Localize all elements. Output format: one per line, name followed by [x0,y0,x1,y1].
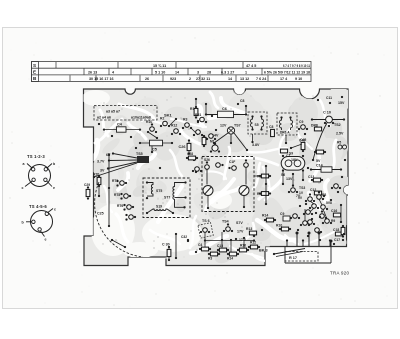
svg-text:R14: R14 [262,214,268,218]
svg-text:ST5: ST5 [156,189,162,193]
capacitor C16 [331,209,341,217]
transistor TS16 [206,134,216,140]
bus wire bottom center [204,239,255,241]
right cluster interconnect wires [305,199,327,221]
transistor TS3b [288,184,298,193]
potentiometer R17 dashed box [285,252,318,262]
wire DR6 box down [285,135,287,144]
choke DR7 [314,150,326,154]
wire down right [245,167,247,184]
wire down to edge B [308,232,311,247]
resistor R12b [248,241,260,249]
wire stub lower-left [112,240,126,248]
transistor TS4 [222,220,233,233]
scale left index boxes [32,62,39,82]
svg-text:C8: C8 [240,99,244,103]
transistor C1F [216,163,221,168]
bottom row capacitor C15 [217,244,229,252]
svg-text:DR6.A: DR6.A [280,131,290,135]
capacitor C5 [139,140,173,151]
svg-text:28: 28 [207,70,211,74]
transistor S27 [244,163,249,168]
white copper traces texture [90,92,336,261]
svg-text:R12: R12 [171,124,177,128]
dial scale assembly [32,62,312,82]
svg-text:RT9: RT9 [112,179,118,183]
board pads above R17 [286,239,331,246]
svg-text:C25: C25 [97,212,104,216]
wire dumbbell to TS3 [292,173,294,187]
capacitor C28 [186,152,198,160]
svg-text:TS2: TS2 [334,123,341,127]
svg-text:7V: 7V [296,194,301,198]
coil can S8 dumbbell [281,152,305,172]
svg-text:C 10: C 10 [323,111,331,115]
wire pair down-left [175,233,177,259]
capacitor C14 [310,164,342,173]
transistor TS11 [160,117,170,128]
resistor R14 [262,214,276,222]
wire dumbbell risers [282,171,304,186]
gray scan mottling [89,83,367,265]
junction dots top right [317,96,343,104]
scale numbers row 2 [88,70,310,74]
scale row line 2 [32,74,312,76]
svg-text:3V: 3V [100,169,105,173]
svg-text:R1: R1 [190,107,194,111]
capacitor C18 [333,228,343,236]
choke DR8 [311,124,322,131]
transistor TS6 with dashed outline [198,219,213,238]
bottom row resistor R3b [208,252,220,260]
resistor R21 [202,135,206,147]
svg-text:6.3 1 27: 6.3 1 27 [221,70,234,74]
page scan noise [9,31,391,307]
transistor TS15 [195,113,213,123]
tuning drum arc [95,182,143,257]
capacitor C6 [205,107,247,118]
bottom row capacitor C6b [198,243,211,251]
junction dots right column [299,159,346,207]
resistor R10b [276,224,291,231]
svg-text:17 V: 17 V [239,238,247,242]
junction dots row under dashed box [98,123,132,138]
svg-text:ST7: ST7 [164,196,170,200]
svg-text:3.7V: 3.7V [97,160,105,164]
svg-text:RT6: RT6 [117,204,123,208]
svg-text:TS4: TS4 [222,220,229,224]
transistor TS12 [171,124,181,136]
svg-text:C16: C16 [331,209,337,213]
svg-text:C17: C17 [334,238,340,242]
capacitor C12 [310,188,322,195]
transistor C3F [232,166,237,171]
transistor near C45 [298,120,308,130]
svg-text:7 6 24: 7 6 24 [256,77,267,81]
svg-text:26 13: 26 13 [88,70,97,74]
capacitor C10 with leads [311,111,345,121]
wire trimmer C3 down [243,196,245,209]
coil S19 [147,209,173,213]
transistor TS8 driver [210,140,220,153]
capacitor C4 [103,123,141,133]
svg-text:C26: C26 [179,145,186,149]
arc junction dot [111,239,113,241]
svg-text:13 12: 13 12 [240,77,249,81]
capacitor C30 [162,243,171,262]
svg-text:15V: 15V [338,101,345,105]
transistor TS2 [312,116,341,161]
svg-text:R9: R9 [331,219,335,223]
capacitor C29 on left edge [84,183,90,200]
svg-text:5V: 5V [316,159,321,163]
svg-text:17V: 17V [237,230,244,234]
wire TS6 riser [204,233,206,248]
transistor cluster A [305,193,315,202]
svg-text:R 17: R 17 [289,256,297,260]
electrolytic R5 [337,141,347,150]
junction dots right column extra [297,229,345,245]
transistor RT9 [112,179,127,187]
svg-text:a3 a5 a7: a3 a5 a7 [106,110,120,114]
svg-text:S7V: S7V [236,221,243,225]
svg-text:C7: C7 [286,154,290,158]
svg-text:R3: R3 [208,257,212,261]
wire top cluster d [202,129,217,139]
svg-text:C29: C29 [84,183,90,187]
PCB board outline [84,89,349,266]
svg-text:C4: C4 [198,243,202,247]
svg-text:2: 2 [189,77,191,81]
svg-text:c: c [54,208,56,212]
svg-text:C9: C9 [280,212,284,216]
wire top cluster c [191,120,199,135]
wire left column riser [98,186,100,197]
capacitor C13 [308,175,323,182]
svg-text:3.8V: 3.8V [252,143,260,147]
svg-text:e: e [45,238,47,242]
wire TS4 risers [221,232,223,248]
svg-text:R3: R3 [183,118,187,122]
svg-text:14V: 14V [212,134,219,138]
transistor cluster D [321,201,332,210]
right cluster extra dots [305,195,325,220]
svg-text:R13: R13 [246,227,252,231]
dashed coil box DR6 [277,113,297,135]
wire down to edge C [318,232,321,247]
wire top cluster b [169,118,177,126]
capacitor C9b [280,212,290,221]
wire C6 left riser [205,103,207,115]
svg-text:C11: C11 [326,96,332,100]
wire right column to edge [340,204,342,223]
capacitor C38 [341,225,345,238]
wire down to edge D [330,240,333,247]
scale row line 1 [32,67,312,69]
transistor TS13 [182,118,192,130]
transistor extra right column a [300,221,310,226]
svg-text:C28: C28 [187,152,193,156]
wire under C5 [151,146,153,153]
svg-text:C32: C32 [181,235,187,239]
transistor TS14 [193,130,203,136]
svg-text:3: 3 [197,70,199,74]
transistor RT5 [125,214,136,221]
wire from TS7 to C10 area [290,144,302,149]
wire bottom row riser a [230,239,232,252]
svg-text:TS7: TS7 [234,124,241,128]
wire S5 box down [251,134,253,143]
svg-text:SK1: SK1 [164,113,173,118]
svg-text:C1F: C1F [229,160,235,164]
svg-text:R31: R31 [195,113,201,117]
wire from R1 up [195,98,197,107]
svg-text:C6: C6 [222,107,227,111]
resistor R20 [93,173,101,188]
svg-text:TS5: TS5 [136,152,143,156]
svg-text:9 10: 9 10 [295,77,302,81]
svg-text:C18: C18 [333,228,339,232]
capacitor C25 [97,153,110,227]
connector pin-field dashed box [94,106,157,121]
scale numbers row 1 [153,64,310,68]
svg-text:TS 1-2-3: TS 1-2-3 [27,154,45,159]
wire C6 right riser [245,105,247,115]
resistor R13 [246,227,257,235]
svg-text:S: S [33,63,36,68]
svg-text:C5: C5 [152,148,157,152]
svg-text:a2 a4 a6: a2 a4 a6 [97,116,111,120]
connector TS 4-5-6 body [22,208,57,242]
capacitor C7 [280,149,290,158]
capacitor C17B [334,238,344,242]
svg-text:TS 6: TS 6 [202,219,210,223]
wire box B to R6 [254,175,260,177]
svg-text:S5: S5 [255,123,259,127]
svg-text:S19: S19 [156,205,162,209]
coil ST7 [173,183,186,208]
white wash pockets [82,90,232,258]
transistor extra right column b [315,228,322,233]
capacitor C45 [300,133,306,142]
resistor R7 [257,192,271,196]
svg-text:6 5% 26 5/9 7/12 11 12 19 18: 6 5% 26 5/9 7/12 11 12 19 18 [264,70,310,74]
svg-text:923: 923 [170,77,176,81]
transistor R9 [322,219,336,224]
svg-text:R10: R10 [146,120,152,124]
scale numbers row 3 [89,77,302,81]
svg-text:R5: R5 [337,141,341,145]
svg-text:18V: 18V [291,158,298,162]
wire down to edge A [296,232,299,247]
svg-text:5V8: 5V8 [326,201,332,205]
bottom row resistor R14c [227,252,239,260]
svg-text:C8: C8 [269,125,273,129]
svg-text:47 4 5: 47 4 5 [246,64,256,68]
trimmer capacitor C3 [239,186,249,196]
svg-text:1: 1 [245,70,247,74]
svg-text:C9: C9 [299,120,303,124]
svg-text:C 30: C 30 [162,243,170,247]
transistor bottom cluster b [305,220,315,225]
scale index letters [33,63,37,81]
junction dots mid board [135,147,197,173]
transistor TS9 [192,167,202,172]
capacitor C42 [299,139,305,153]
svg-text:2.5V: 2.5V [336,132,344,136]
bottom row resistor R16 [237,244,249,252]
transistor RT8 [114,193,131,200]
svg-text:R16: R16 [240,244,246,248]
svg-text:C42: C42 [299,139,305,143]
svg-text:26: 26 [145,77,149,81]
transistor TS7 [212,124,248,152]
svg-text:27 32 11: 27 32 11 [196,77,210,81]
transistor S26 [205,165,210,170]
capacitor C26 [179,139,191,154]
junction label 17 [235,238,247,242]
capacitor C8 top label [237,99,245,105]
svg-text:E: E [33,70,36,75]
transistor cluster B [317,191,327,200]
transistor cluster C [309,204,319,209]
transistor TS10 [146,120,157,133]
svg-text:15 ¾ 11: 15 ¾ 11 [153,64,166,68]
vertical wire with junctions [265,165,267,205]
svg-text:M1: M1 [210,140,215,144]
resistor R6 [257,174,271,178]
svg-text:a10a11a9a8: a10a11a9a8 [131,116,151,120]
svg-text:6 7 4 7 9 7 9 8 9 10 11: 6 7 4 7 9 7 9 8 9 10 11 [283,64,310,68]
connector TS 1-2-3 body [22,162,57,190]
dashed coil box S4/S5 [248,112,267,134]
svg-text:c: c [22,186,24,190]
scale tick marks [56,62,268,81]
trimmer capacitor C2 [203,186,213,196]
junction dots lower area [187,229,263,253]
svg-text:R2: R2 [160,117,164,121]
capacitor C8 [269,125,274,137]
svg-text:R14: R14 [227,257,233,261]
wire bottom row riser b [243,237,245,248]
wire top cluster a [148,132,158,139]
transistor bottom cluster c [320,210,327,219]
scale frame [32,62,312,82]
transistor TS5 with fanned wires [93,152,149,178]
potentiometer lever [273,249,305,257]
R17 frame wires [285,247,331,264]
transistor bottom cluster a [290,214,300,219]
svg-text:TS 4-5-6: TS 4-5-6 [29,204,47,209]
svg-text:13V: 13V [286,177,293,181]
svg-text:BK 3: BK 3 [259,249,268,253]
svg-text:5 1 10: 5 1 10 [155,70,165,74]
transistor RT7 [117,204,134,211]
transistor extra right column c [331,184,341,189]
wire trimmer C2 down [207,196,209,210]
transistor cluster E [303,210,313,215]
svg-text:TRA 920: TRA 920 [330,271,349,276]
resistor R1 [190,106,198,119]
svg-text:e: e [53,186,55,190]
svg-text:TS3: TS3 [299,186,305,190]
coil ST5 [147,183,153,197]
capacitor C32 label [181,235,189,242]
svg-text:12V: 12V [220,124,227,128]
wire down left [206,169,208,184]
svg-text:17 4: 17 4 [280,77,288,81]
svg-text:30 15 16 17 16: 30 15 16 17 16 [89,77,114,81]
svg-text:RT8: RT8 [114,193,120,197]
svg-text:S26: S26 [204,158,210,162]
